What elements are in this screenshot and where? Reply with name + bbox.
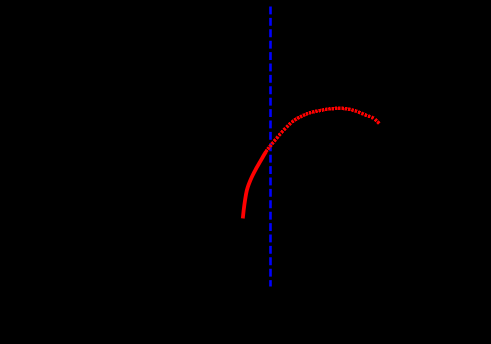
red curve solid steep segment [243,152,266,219]
blue dashed vertical line [269,7,272,287]
red curve dotted segment [264,107,380,153]
